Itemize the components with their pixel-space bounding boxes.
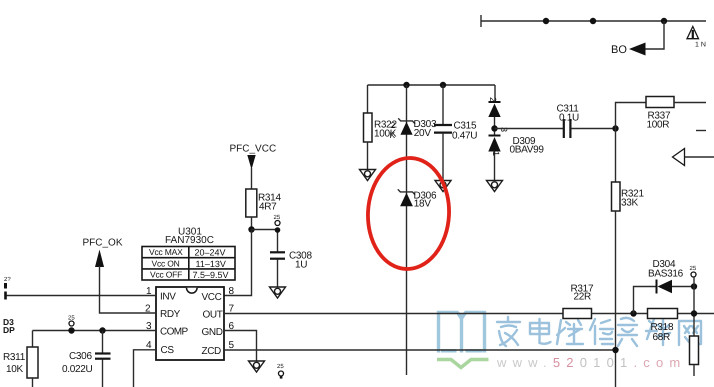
svg-text:FAN7930C: FAN7930C (165, 235, 214, 246)
resistor R314 4R7 (246, 189, 282, 230)
net stub above C308 (274, 214, 281, 233)
ground below C315 (435, 181, 451, 192)
ground GND pin (249, 361, 265, 372)
watermark char 5 (618, 318, 637, 346)
svg-text:0.022U: 0.022U (62, 364, 93, 375)
wire pin5 ZCD (224, 349, 616, 351)
svg-text:Vcc OFF: Vcc OFF (150, 270, 182, 280)
wire top rail (481, 15, 706, 27)
svg-text:CS: CS (161, 345, 175, 356)
resistor R337 100R (646, 97, 706, 131)
svg-text:www.520101.com: www.520101.com (496, 355, 686, 370)
net stub near GND ground (277, 363, 284, 379)
svg-text:C306: C306 (69, 351, 92, 362)
svg-text:0.1U: 0.1U (559, 113, 579, 124)
node junction ZCD R321 (612, 347, 618, 353)
wire D304 node down (693, 277, 695, 336)
node junction top rail B (590, 18, 596, 24)
node PFC_OK arrow (95, 250, 104, 268)
watermark char 7 (679, 321, 701, 345)
capacitor C315 (434, 85, 477, 180)
net stub above R311 node (68, 315, 75, 327)
table Vcc thresholds (142, 247, 235, 281)
svg-text:22R: 22R (574, 292, 592, 303)
svg-text:100R: 100R (647, 120, 670, 131)
node junction D304 right (691, 283, 697, 289)
node warning 1N (687, 27, 706, 49)
net stub left edge (4, 276, 11, 289)
label U301 FAN7930C (165, 227, 214, 247)
wire stub right mid (696, 130, 706, 132)
node junction COMP A (68, 327, 74, 333)
watermark char 6 (646, 318, 670, 345)
ground below D309 (487, 181, 503, 192)
svg-text:PFC_VCC: PFC_VCC (230, 144, 277, 155)
svg-text:68R: 68R (653, 332, 671, 343)
svg-text:0BAV99: 0BAV99 (510, 145, 545, 156)
svg-text:ZCD: ZCD (202, 346, 222, 357)
wire pin7 OUT long (224, 313, 714, 315)
node junction D309 mid (491, 125, 497, 131)
svg-text:11–13V: 11–13V (196, 259, 226, 269)
svg-text:7.5–9.5V: 7.5–9.5V (193, 270, 229, 280)
wire BO drop (645, 21, 664, 49)
svg-text:Vcc ON: Vcc ON (152, 258, 180, 268)
svg-text:20V: 20V (414, 128, 432, 139)
svg-text:RDY: RDY (160, 309, 181, 320)
svg-text:18V: 18V (414, 199, 432, 210)
capacitor C306 0.022U (62, 331, 111, 387)
svg-text:1: 1 (491, 151, 501, 156)
zener D306 18V (398, 189, 437, 209)
svg-text:25: 25 (690, 265, 697, 272)
wire PFC rail (368, 84, 496, 86)
svg-text:R311: R311 (3, 352, 26, 363)
node junction R317 D304 (630, 310, 636, 316)
node junction C315 rail (440, 82, 446, 88)
svg-text:3: 3 (499, 127, 509, 132)
svg-text:8: 8 (229, 286, 235, 297)
wire node to R337 (616, 103, 647, 129)
svg-text:10K: 10K (6, 364, 24, 375)
node junction C311 R321 (612, 125, 618, 131)
watermark char 1 (497, 317, 520, 346)
svg-text:COMP: COMP (160, 327, 189, 338)
svg-text:0.47U: 0.47U (452, 131, 477, 142)
resistor R322 (364, 85, 398, 169)
svg-text:VCC: VCC (202, 292, 222, 303)
node junction D303 rail (403, 82, 409, 88)
svg-text:2?: 2? (4, 276, 11, 283)
capacitor C311 0.1U (557, 104, 616, 139)
svg-text:INV: INV (160, 292, 176, 303)
wire PFC_OK to RDY pin2 (100, 266, 157, 313)
svg-text:OUT: OUT (203, 310, 223, 321)
highlight red ellipse (365, 156, 452, 271)
watermark char 2 (530, 319, 551, 344)
wire pin3 COMP (33, 330, 157, 332)
watermark char 4 (590, 319, 613, 344)
svg-text:25: 25 (277, 363, 284, 370)
wire VCC pin 8 (224, 230, 252, 296)
node input arrow left (673, 149, 714, 166)
diode D304 BAS316 (648, 259, 694, 294)
wire pin1 INV (6, 292, 157, 300)
svg-text:BAS316: BAS316 (648, 269, 684, 280)
resistor R318 68R (648, 309, 678, 344)
svg-text:GND: GND (202, 327, 223, 338)
resistor R317 22R (563, 284, 594, 319)
svg-text:4R7: 4R7 (259, 202, 277, 213)
diode D309 0BAV99 (488, 85, 544, 180)
ground below R322 (360, 170, 376, 181)
svg-text:1U: 1U (295, 260, 307, 271)
capacitor C308 1U (270, 251, 312, 288)
node junction R318 right (691, 310, 697, 316)
svg-text:1 N: 1 N (695, 42, 706, 49)
zener D303 20V (390, 118, 437, 140)
svg-text:K: K (390, 130, 396, 140)
node PFC_VCC arrow (247, 155, 255, 170)
wire ZCD node branch (615, 211, 617, 387)
svg-text:DP: DP (3, 325, 15, 335)
wire pin6 GND (224, 331, 257, 362)
resistor R311 10K (3, 331, 38, 387)
node junction VCC (248, 226, 254, 232)
op-amp U301 IC box (156, 287, 224, 360)
node junction top rail A (543, 18, 549, 24)
watermark char 3 (557, 320, 583, 344)
svg-text:2: 2 (391, 120, 396, 130)
svg-text:20–24V: 20–24V (195, 248, 226, 258)
wire D303/D306 branch (406, 85, 408, 375)
label D3 DP (3, 317, 15, 335)
resistor R319 vertical (690, 336, 699, 376)
wire pin4 CS (134, 350, 157, 387)
node junction COMP B (99, 327, 105, 333)
resistor R321 33K (612, 182, 645, 211)
svg-text:33K: 33K (621, 198, 639, 209)
wire D309 to C311 (495, 128, 564, 130)
svg-text:2: 2 (488, 97, 498, 102)
node junction top rail C (661, 18, 667, 24)
net stub above D304 node (690, 265, 697, 277)
svg-text:Vcc MAX: Vcc MAX (149, 247, 183, 257)
wire R321 branch (615, 129, 617, 183)
svg-text:PFC_OK: PFC_OK (83, 238, 123, 249)
wire to C308 (252, 230, 278, 253)
wire PFC_VCC to R314 (251, 168, 253, 189)
ground below C308 (270, 287, 286, 298)
svg-text:BO: BO (611, 44, 627, 56)
wire D304 branch (634, 287, 657, 314)
node BO arrow (629, 43, 646, 56)
watermark book icon (437, 312, 489, 367)
